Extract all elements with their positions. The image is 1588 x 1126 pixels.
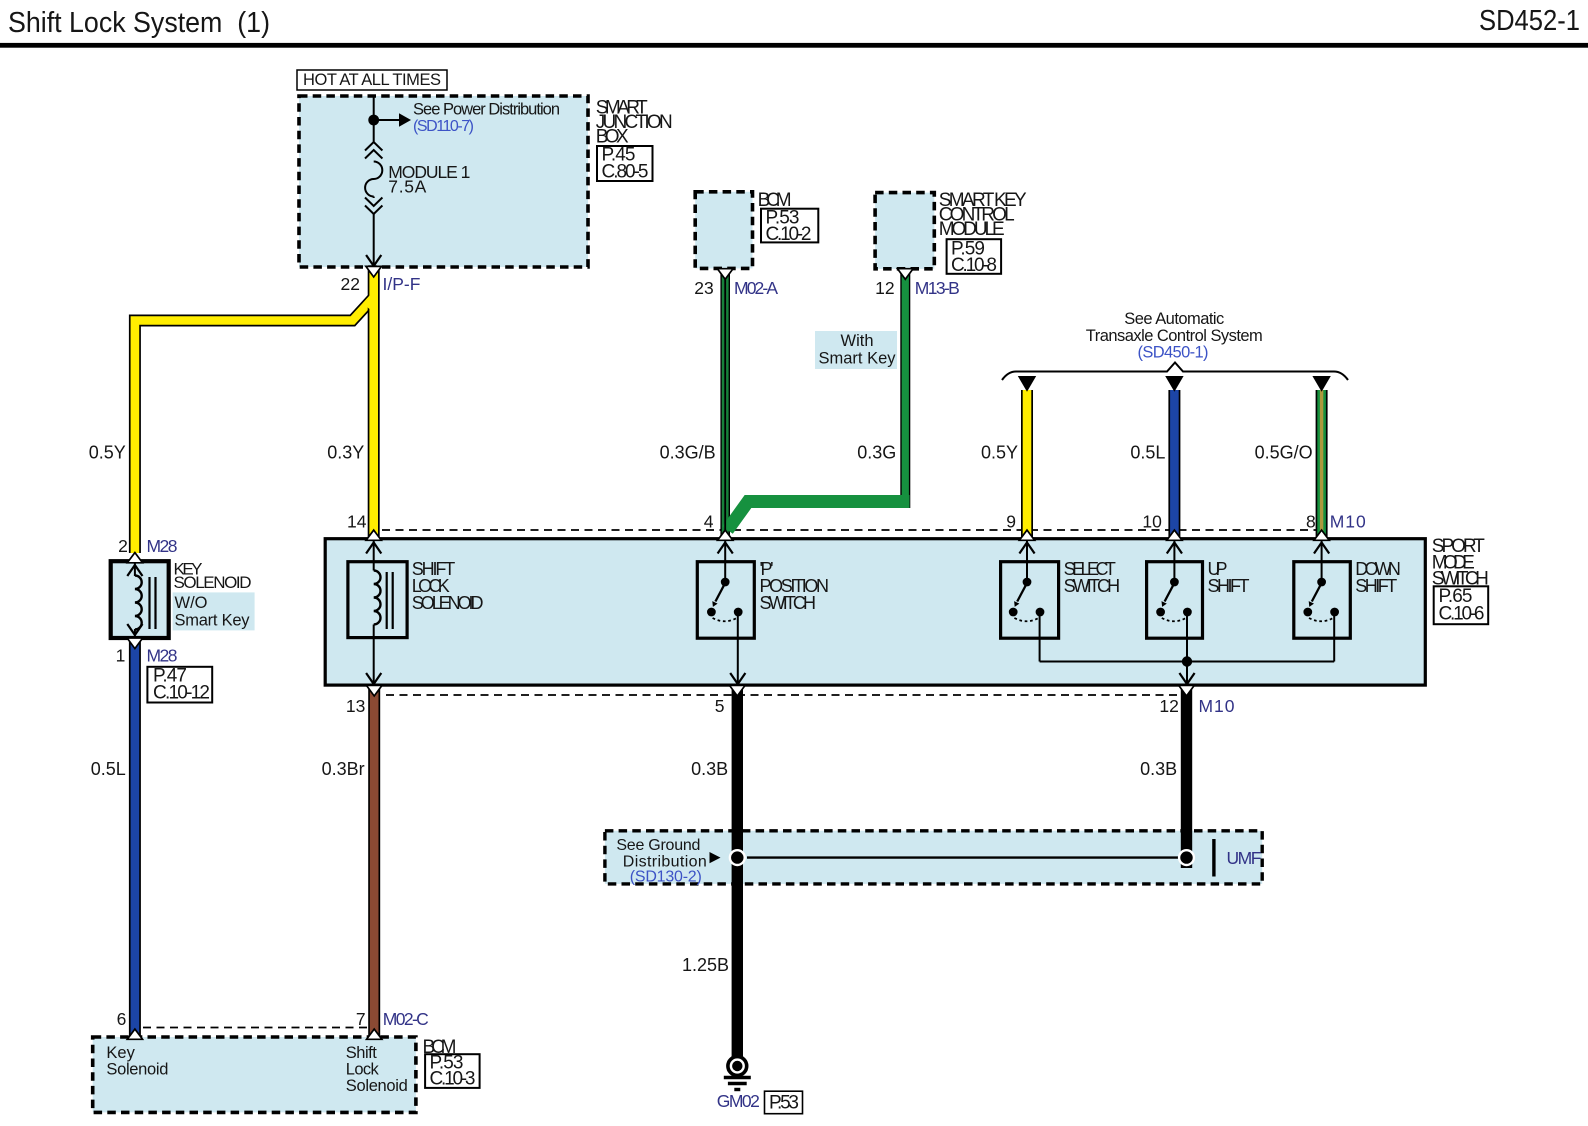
- svg-text:SHIFT: SHIFT: [1208, 576, 1250, 596]
- wire 0.5L (to up shift): [1168, 390, 1180, 539]
- svg-text:1.25B: 1.25B: [682, 955, 729, 975]
- harness dashed line (above bottom BCM): [143, 1027, 367, 1029]
- ref box P.65 C.10-6: [1434, 586, 1489, 624]
- triangle terminator (0.5G/O): [1312, 376, 1330, 392]
- svg-text:W/O: W/O: [175, 594, 208, 612]
- branch arrow to See Power Distribution: [374, 119, 399, 121]
- svg-text:0.3B: 0.3B: [1140, 759, 1177, 779]
- svg-text:0.3G: 0.3G: [857, 443, 896, 463]
- connector pin 10: [1167, 530, 1182, 540]
- wire 0.3B (P position switch to ground): [732, 686, 743, 1058]
- KEY SOLENOID block: [111, 561, 169, 638]
- svg-text:C.80-5: C.80-5: [602, 162, 649, 183]
- svg-text:12: 12: [875, 278, 894, 298]
- svg-text:SWITCH: SWITCH: [1064, 576, 1121, 596]
- svg-text:12: 12: [1159, 696, 1178, 716]
- svg-text:1: 1: [116, 646, 126, 666]
- ground GM02: [728, 1057, 747, 1076]
- svg-text:0.5Y: 0.5Y: [981, 443, 1018, 463]
- wire joint: 0.5Y branch into 0.3Y: [366, 298, 374, 307]
- svg-text:Smart Key: Smart Key: [818, 350, 896, 368]
- W/O Smart Key note: [173, 592, 255, 630]
- SMART KEY CONTROL MODULE (top dashed block): [875, 193, 934, 269]
- wire 0.5G/O (to down shift): [1316, 390, 1328, 539]
- svg-text:0.5G/O: 0.5G/O: [1255, 443, 1313, 463]
- triangle terminator (0.5Y): [1018, 376, 1036, 392]
- svg-text:SOLENOID: SOLENOID: [174, 573, 252, 592]
- svg-text:P.53: P.53: [769, 1093, 799, 1114]
- svg-text:9: 9: [1006, 512, 1016, 532]
- connector pin 9: [1019, 530, 1034, 540]
- shift lock solenoid: [348, 562, 407, 638]
- SPORT MODE SWITCH block: [325, 539, 1425, 685]
- wire inside SJB (top feed): [373, 96, 375, 142]
- With Smart Key note: [815, 331, 897, 369]
- SKCM ref box P.59 C.10-8: [947, 239, 1002, 274]
- svg-text:MODULE: MODULE: [939, 219, 1005, 240]
- svg-text:See Ground: See Ground: [616, 837, 700, 854]
- svg-text:0.3G/B: 0.3G/B: [660, 443, 716, 463]
- svg-text:0.3B: 0.3B: [691, 759, 728, 779]
- node: splice on 0.3B (right): [1178, 849, 1195, 866]
- svg-text:4: 4: [704, 512, 714, 532]
- connector pin 12 M10: [1179, 685, 1195, 696]
- svg-text:C.10-6: C.10-6: [1439, 604, 1485, 625]
- svg-text:0.5L: 0.5L: [91, 759, 126, 779]
- triangle terminator (0.5L): [1165, 376, 1183, 392]
- svg-text:Shift: Shift: [346, 1044, 377, 1062]
- svg-text:23: 23: [694, 278, 713, 298]
- ref box P.53 C.10-3: [425, 1054, 480, 1088]
- connector pin 12 M13-B: [898, 269, 914, 280]
- SMART JUNCTION BOX (dashed block): [299, 96, 588, 267]
- svg-text:SD452-1: SD452-1: [1479, 5, 1580, 37]
- harness dashed line (below sport mode switch): [386, 694, 1180, 696]
- BCM ref box P.53 C.10-2: [761, 209, 818, 243]
- wire 0.3G (SKCM to P position switch, elbow): [900, 268, 910, 508]
- svg-text:SWITCH: SWITCH: [760, 593, 817, 613]
- svg-text:0.5Y: 0.5Y: [89, 443, 126, 463]
- connector pin 4: [718, 530, 733, 540]
- connector pin 5: [730, 685, 746, 696]
- svg-text:C.10-8: C.10-8: [951, 255, 997, 276]
- svg-text:HOT AT ALL TIMES: HOT AT ALL TIMES: [303, 71, 441, 89]
- svg-text:7: 7: [356, 1009, 366, 1029]
- svg-text:(SD450-1): (SD450-1): [1138, 344, 1209, 362]
- svg-text:C.10-3: C.10-3: [430, 1069, 476, 1090]
- node: splice on 0.3B (left): [729, 849, 746, 866]
- svg-text:10: 10: [1142, 512, 1162, 532]
- wire 0.3G/B (BCM to P position switch): [720, 268, 730, 539]
- svg-text:SHIFT: SHIFT: [1355, 576, 1397, 596]
- select switch: [1001, 562, 1059, 639]
- wire 0.3Br (shift lock solenoid to BCM): [368, 686, 380, 1038]
- ref box P.47 C.10-12: [147, 667, 212, 703]
- connector pin 8 M10: [1314, 530, 1329, 540]
- SJB page/connector ref box P.45 C.80-5: [597, 146, 653, 181]
- switch common bus: [1040, 661, 1335, 663]
- svg-text:M10: M10: [1330, 512, 1366, 532]
- connector pin 1 exit notch: [127, 638, 143, 649]
- svg-text:M28: M28: [147, 536, 178, 556]
- connector pin 6: [127, 1029, 142, 1039]
- pointer triangle: [710, 852, 721, 863]
- svg-text:M28: M28: [147, 646, 178, 666]
- node: power feed junction: [368, 115, 379, 126]
- ground ref box P.53: [765, 1091, 803, 1114]
- svg-text:5: 5: [715, 696, 725, 716]
- svg-text:See Automatic: See Automatic: [1124, 310, 1224, 328]
- wire 0.5Y (to select switch): [1021, 390, 1033, 539]
- connector pin 14: [366, 530, 381, 540]
- svg-text:M02-A: M02-A: [734, 278, 778, 298]
- P position switch: [697, 562, 754, 639]
- svg-text:UMF: UMF: [1227, 848, 1262, 868]
- wire 0.3Y (SJB to shift lock solenoid): [368, 266, 380, 539]
- svg-text:Key: Key: [106, 1044, 135, 1062]
- svg-text:0.3Y: 0.3Y: [327, 443, 364, 463]
- svg-text:Smart Key: Smart Key: [175, 612, 251, 630]
- svg-text:13: 13: [346, 696, 365, 716]
- BCM (top dashed block): [695, 192, 752, 269]
- arrow at SJB exit pin 22: [366, 255, 381, 266]
- harness dashed line (top of sport mode switch): [382, 529, 1316, 531]
- svg-text:7.5A: 7.5A: [388, 177, 426, 197]
- svg-text:See Power Distribution: See Power Distribution: [413, 101, 560, 119]
- svg-text:14: 14: [347, 512, 367, 532]
- up shift switch: [1147, 562, 1203, 639]
- svg-text:6: 6: [117, 1009, 127, 1029]
- svg-text:Shift Lock System (1): Shift Lock System (1): [8, 7, 270, 39]
- wire 0.5Y branch (left yellow): [135, 296, 375, 553]
- svg-text:With: With: [841, 332, 874, 350]
- brace: [1002, 363, 1348, 381]
- svg-text:Solenoid: Solenoid: [106, 1061, 168, 1079]
- connector pin 22 I/P-F: [366, 266, 382, 277]
- svg-text:0.5L: 0.5L: [1130, 443, 1165, 463]
- svg-text:GM02: GM02: [717, 1091, 760, 1111]
- connector pin 2 M28: [127, 553, 142, 563]
- down shift switch: [1294, 562, 1351, 639]
- svg-text:C.10-2: C.10-2: [766, 224, 812, 245]
- wire 0.3B (sport mode switch to ground splice): [1181, 686, 1192, 868]
- connector pin 23 M02-A: [717, 269, 733, 280]
- svg-text:C.10-12: C.10-12: [153, 683, 210, 704]
- title rule: [0, 43, 1588, 48]
- svg-text:Transaxle Control System: Transaxle Control System: [1086, 327, 1263, 345]
- svg-text:(SD130-2): (SD130-2): [630, 869, 702, 886]
- svg-text:22: 22: [341, 274, 360, 294]
- svg-text:M02-C: M02-C: [383, 1009, 429, 1029]
- svg-text:Lock: Lock: [346, 1061, 380, 1079]
- connector pin 13: [366, 685, 382, 696]
- svg-text:Solenoid: Solenoid: [346, 1077, 408, 1095]
- svg-text:I/P-F: I/P-F: [383, 274, 421, 294]
- svg-text:0.3Br: 0.3Br: [322, 759, 365, 779]
- connector pin 7 M02-C: [367, 1029, 382, 1039]
- HOT AT ALL TIMES label box: [297, 70, 447, 90]
- svg-text:M13-B: M13-B: [915, 278, 960, 298]
- svg-text:(SD110-7): (SD110-7): [413, 118, 474, 135]
- svg-text:8: 8: [1306, 512, 1316, 532]
- UMF separator and label: [1212, 839, 1215, 877]
- fuse MODULE 1 7.5A: [365, 142, 382, 266]
- svg-text:M10: M10: [1199, 696, 1235, 716]
- wire 0.3G/B black stripe: [724, 268, 726, 539]
- BCM (bottom dashed block): [93, 1037, 416, 1112]
- node: common junction: [1182, 656, 1192, 666]
- svg-text:SOLENOID: SOLENOID: [412, 593, 484, 613]
- ground distribution block: [605, 831, 1262, 884]
- wire 0.5L (key solenoid to BCM): [129, 640, 141, 1038]
- splice line across ground block: [747, 856, 1179, 858]
- svg-text:2: 2: [118, 536, 128, 556]
